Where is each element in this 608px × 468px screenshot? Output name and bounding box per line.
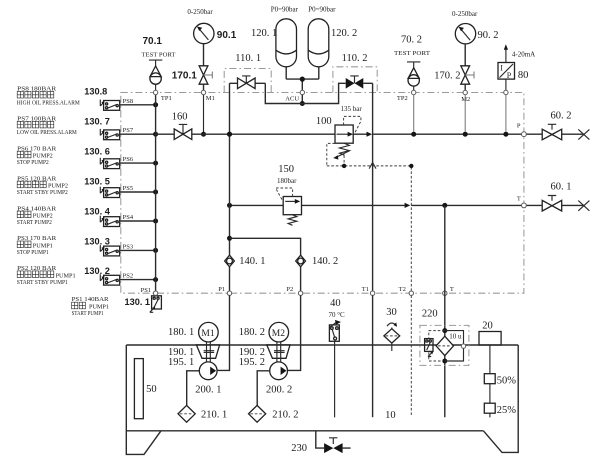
wire PS8 stub to manifold (120, 104, 156, 106)
svg-text:ACU: ACU (285, 96, 299, 103)
pressure switch PS4 symbol (100, 214, 134, 227)
svg-text:160: 160 (172, 111, 188, 122)
shut-off valve 110.1 (open) (235, 53, 261, 88)
svg-text:T: T (517, 196, 521, 203)
pump 200.1 (195, 362, 221, 396)
svg-text:10 u: 10 u (449, 333, 462, 341)
svg-text:200. 2: 200. 2 (266, 384, 292, 395)
wire pump1 suction (187, 371, 200, 406)
filter element diamond (436, 336, 453, 355)
wire port to P row (505, 95, 507, 132)
svg-text:130. 4: 130. 4 (84, 206, 110, 216)
port T (517, 196, 526, 208)
suction strainer 210.2 (249, 405, 299, 422)
wire thermostat probe into tank (334, 341, 336, 417)
svg-text:100: 100 (316, 116, 332, 127)
filter bypass branch with indicator (445, 331, 466, 361)
svg-text:130.8: 130.8 (84, 87, 107, 97)
plugged outlet X (60.2) (578, 129, 589, 139)
port PS1 marker (153, 291, 157, 295)
shut-off valve 60.2 (542, 110, 571, 139)
label 120.1 (251, 28, 277, 39)
svg-text:40: 40 (330, 298, 341, 309)
port T1 (bottom boundary) (362, 286, 375, 295)
dashed drain line to T2 (327, 164, 414, 294)
svg-text:PS7: PS7 (123, 127, 134, 134)
dashed drain T2 into tank (410, 295, 412, 416)
level switch 50% (484, 374, 516, 387)
level switch 25% (484, 403, 516, 416)
svg-text:P0=90bar: P0=90bar (308, 6, 336, 14)
wire T1 return into tank (372, 295, 374, 417)
bell housing / coupling 190.1 195.1 (168, 342, 220, 368)
svg-text:LOW OIL PRESS.ALARM: LOW OIL PRESS.ALARM (17, 129, 77, 136)
air breather 30 (384, 307, 400, 351)
svg-text:0-250bar: 0-250bar (452, 10, 478, 18)
svg-text:STOP PUMP2: STOP PUMP2 (17, 159, 49, 166)
svg-text:180. 1: 180. 1 (168, 327, 194, 338)
wire ACU to bypass line (300, 95, 305, 106)
thermostat 40 (329, 298, 346, 341)
pressure switch 130.5 (PS5) labels (17, 175, 110, 196)
svg-text:M2: M2 (272, 329, 285, 339)
pressure switch PS1 symbol (vertical, below PS1 port) (141, 287, 162, 313)
port T (bottom boundary) (443, 286, 454, 295)
svg-text:130. 7: 130. 7 (84, 117, 110, 127)
svg-text:PS1: PS1 (141, 287, 151, 294)
accumulator 120.2 (308, 19, 329, 67)
svg-text:50%: 50% (497, 376, 517, 387)
svg-text:P: P (507, 71, 512, 80)
pressure switch PS8 symbol (100, 98, 133, 111)
level gauge 50 (134, 359, 156, 419)
svg-text:220: 220 (422, 308, 438, 319)
svg-text:70 °C: 70 °C (329, 311, 346, 319)
svg-text:P1: P1 (218, 286, 225, 293)
wire valve 170.2 to port M2 (464, 84, 466, 92)
needle valve 170.2 (434, 66, 474, 84)
svg-text:START PUMP1: START PUMP1 (72, 310, 104, 317)
svg-text:210. 1: 210. 1 (201, 410, 227, 421)
drain arrow on T1 line (369, 162, 376, 168)
svg-text:110. 2: 110. 2 (342, 53, 368, 64)
port TP1 (153, 90, 171, 102)
svg-text:120. 1: 120. 1 (251, 28, 277, 39)
svg-text:P2: P2 (286, 286, 293, 293)
svg-text:70. 2: 70. 2 (401, 35, 422, 46)
svg-text:170.1: 170.1 (172, 71, 197, 82)
svg-text:T1: T1 (362, 286, 369, 293)
port T2 (bottom boundary) (399, 286, 414, 295)
filter clogging switch (dashed branch) (425, 331, 445, 361)
pressure switch 130.2 (PS2) labels (17, 265, 110, 286)
port below transmitter 80 (504, 90, 508, 94)
return filter 220 group (420, 308, 469, 365)
pilot relief valve 100 (316, 105, 362, 143)
wire PS2 stub to manifold (120, 279, 156, 281)
valve 100 pilot dashed line (344, 116, 361, 132)
svg-text:T2: T2 (399, 286, 406, 293)
wire PS3 stub to manifold (120, 249, 156, 251)
wire valve 170.1 to port M1 (203, 84, 205, 92)
wire T return into tank (through filter 220) (444, 205, 446, 417)
port M2 (461, 90, 470, 103)
junction node PS4 (153, 219, 158, 224)
svg-text:135 bar: 135 bar (341, 105, 363, 113)
electric motor 180.1 (M1) (168, 322, 218, 342)
junction node PS8 (153, 102, 158, 107)
svg-text:START STBY PUMP1: START STBY PUMP1 (17, 279, 68, 286)
plugged outlet X (60.1) (578, 201, 589, 211)
port TP2 (397, 90, 416, 102)
svg-text:195. 1: 195. 1 (168, 357, 194, 368)
svg-text:TP1: TP1 (161, 95, 172, 102)
svg-text:150: 150 (278, 164, 294, 175)
level switch assembly 20 (479, 321, 501, 345)
test port 70.1 (142, 36, 176, 92)
shut-off valve 60.1 (542, 181, 571, 211)
bell housing / coupling 190.2 195.2 (239, 342, 290, 368)
manifold boundary dash-dot box (121, 93, 524, 294)
check valve 140.2 (296, 255, 339, 267)
wire M2 down to P row (464, 95, 466, 132)
svg-text:180bar: 180bar (277, 177, 297, 185)
wire bypass to pump2 branch (230, 238, 301, 293)
pressure gauge 90.1 (187, 8, 236, 43)
wire transmitter 80 to port (505, 79, 507, 92)
svg-text:HIGH OIL PRESS.ALARM: HIGH OIL PRESS.ALARM (17, 99, 80, 106)
valve 150 pilot dashed line (276, 188, 293, 202)
wire PS6 stub to manifold (120, 162, 156, 164)
junction nodes on P row (227, 132, 508, 137)
wire pump1 discharge vertical (P1 line) (227, 83, 232, 293)
label P0=90bar (right) (308, 6, 336, 14)
pressure switch PS7 symbol (100, 127, 134, 140)
svg-text:130. 6: 130. 6 (84, 147, 110, 157)
svg-text:230: 230 (291, 443, 307, 454)
svg-text:PS5: PS5 (123, 185, 133, 192)
svg-text:PS6: PS6 (123, 156, 134, 163)
boundary bump over valve 110.2 (333, 67, 377, 93)
boundary bump over valve 110.1 (224, 69, 271, 93)
junction node PS2 (153, 277, 158, 282)
svg-text:70.1: 70.1 (143, 36, 163, 47)
wire gauge 90.2 to valve 170.2 (464, 44, 466, 66)
wire TP2 down to P row (413, 95, 415, 132)
svg-text:T: T (450, 286, 454, 293)
test port 70.2 (394, 35, 430, 93)
pressure switch PS3 symbol (100, 243, 133, 256)
svg-text:210. 2: 210. 2 (272, 410, 298, 421)
svg-text:10: 10 (385, 410, 396, 421)
svg-text:TP2: TP2 (397, 95, 408, 102)
port M1 (201, 90, 215, 102)
port ACU (285, 90, 304, 102)
wire tank drain (316, 431, 351, 448)
svg-text:140. 2: 140. 2 (312, 256, 338, 267)
svg-text:M1: M1 (201, 329, 214, 339)
svg-text:130. 3: 130. 3 (84, 236, 110, 246)
svg-text:20: 20 (482, 321, 493, 332)
svg-text:200. 1: 200. 1 (195, 384, 221, 395)
pressure reducing valve 150 (277, 164, 302, 215)
pressure switch 130.6 (PS6) labels (17, 145, 110, 166)
pressure switch 130.4 (PS4) labels (17, 205, 111, 226)
wire PS7 stub to manifold (120, 133, 156, 135)
wire 110.2 down to T1 (372, 83, 374, 293)
pressure transmitter 80 (498, 44, 535, 81)
level switch probe (489, 345, 491, 417)
port P1 (bottom boundary) (218, 286, 231, 295)
svg-text:I: I (500, 64, 503, 73)
needle valve 170.1 (172, 66, 213, 84)
svg-text:60. 2: 60. 2 (551, 110, 572, 121)
svg-text:130. 1: 130. 1 (125, 297, 151, 307)
wire tank return line T row (227, 203, 584, 208)
svg-text:TEST PORT: TEST PORT (142, 52, 176, 59)
svg-text:110. 1: 110. 1 (235, 53, 261, 64)
svg-text:25%: 25% (497, 405, 517, 416)
check valve 140.1 (225, 255, 266, 267)
wire pump2 suction (257, 371, 270, 406)
svg-text:80: 80 (518, 70, 529, 81)
shut-off valve 160 (172, 111, 192, 139)
svg-text:PS8: PS8 (123, 98, 133, 105)
wire pump1 outlet to P1 (217, 295, 229, 370)
svg-text:PS3: PS3 (123, 243, 133, 250)
wire gauge 90.1 to valve 170.1 (203, 44, 205, 66)
svg-text:130. 5: 130. 5 (84, 177, 110, 187)
svg-text:START STBY PUMP2: START STBY PUMP2 (17, 189, 68, 196)
svg-text:PS4: PS4 (123, 214, 134, 221)
pressure switch 130.8 (PS8) labels (17, 86, 108, 107)
svg-text:30: 30 (386, 307, 397, 318)
svg-text:140. 1: 140. 1 (239, 256, 265, 267)
junction node PS5 (153, 190, 158, 195)
port P (517, 123, 526, 137)
junction node PS3 (153, 248, 158, 253)
wire PS5 stub to manifold (120, 191, 156, 193)
junction node PS7 (153, 132, 158, 137)
accumulator 120.1 (276, 19, 297, 67)
svg-text:60. 1: 60. 1 (551, 181, 572, 192)
junction node PS6 (153, 161, 158, 166)
valve 100 spring and drain (327, 143, 350, 166)
pressure switch 130.3 (PS3) labels (17, 235, 110, 256)
svg-text:STOP PUMP1: STOP PUMP1 (17, 249, 49, 256)
label P0=90bar (left) (271, 6, 299, 14)
svg-text:P0=90bar: P0=90bar (271, 6, 299, 14)
svg-text:START PUMP2: START PUMP2 (17, 219, 52, 226)
svg-text:50: 50 (146, 384, 157, 395)
shut-off valve 110.2 (closed, filled) (342, 53, 368, 88)
svg-text:TEST PORT: TEST PORT (394, 50, 430, 57)
svg-text:90.1: 90.1 (217, 30, 237, 41)
svg-text:195. 2: 195. 2 (239, 357, 265, 368)
pressure switch 130.1 (PS1) labels (72, 296, 150, 317)
electric motor 180.2 (M2) (239, 322, 289, 342)
wire PS4 stub to manifold (120, 220, 156, 222)
pump 200.2 (266, 362, 292, 396)
pressure switch 130.7 (PS7) labels (17, 116, 110, 137)
svg-text:180. 2: 180. 2 (239, 327, 265, 338)
suction strainer 210.1 (178, 405, 227, 422)
drain valve 230 (closed) (291, 438, 342, 454)
wire pump2 outlet to P2 (288, 295, 301, 370)
valve 150 spring (288, 215, 297, 226)
wire accumulators to ACU port (286, 67, 319, 93)
wire bypass line around valves 110.1/110.2 (230, 83, 373, 103)
svg-text:120. 2: 120. 2 (331, 28, 357, 39)
svg-text:4-20mA: 4-20mA (512, 50, 535, 58)
port P2 (bottom boundary) (286, 286, 302, 295)
tank 10 outline (126, 345, 518, 454)
wire M1 down to P row (201, 95, 206, 137)
pressure gauge 90.2 (452, 10, 499, 44)
pressure switch PS2 symbol (100, 273, 133, 285)
svg-text:90. 2: 90. 2 (478, 30, 499, 41)
label 120.2 (331, 28, 357, 39)
svg-text:0-250bar: 0-250bar (187, 8, 213, 16)
wire PS column main vertical (TP1 line) (155, 93, 157, 294)
filter junction nodes (442, 328, 447, 363)
pressure switch PS6 symbol (100, 156, 134, 169)
svg-text:170. 2: 170. 2 (434, 71, 460, 82)
svg-text:M1: M1 (206, 95, 215, 102)
pressure switch PS5 symbol (100, 185, 133, 198)
svg-text:PS2: PS2 (123, 273, 133, 280)
wire main pressure line P row (156, 132, 584, 137)
svg-text:P: P (517, 123, 521, 130)
